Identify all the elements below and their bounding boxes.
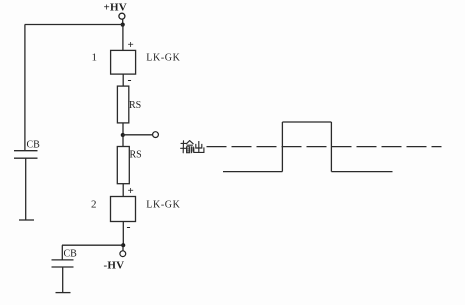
wire bottom horizontal [62, 244, 123, 246]
wire top horizontal [25, 24, 123, 26]
node middle junction dot [121, 133, 125, 137]
terminal +HV circle [119, 13, 125, 19]
waveform baseline left [223, 171, 282, 173]
svg-text:+: + [128, 39, 134, 51]
waveform baseline right [331, 171, 392, 173]
capacitor CB bottom (plates) [52, 260, 74, 267]
wire middle junction to resistor R2 [122, 135, 124, 147]
resistor RS (lower) [117, 147, 129, 184]
svg-text:+HV: +HV [104, 2, 127, 14]
wire main vertical (junction to tube 1) [122, 25, 124, 51]
svg-text:-: - [128, 73, 132, 87]
svg-text:RS: RS [129, 100, 141, 111]
terminal -HV circle [120, 251, 126, 257]
svg-text:2: 2 [91, 199, 97, 211]
svg-text:LK-GK: LK-GK [146, 53, 180, 64]
terminator bar (bottom branch end) [56, 292, 71, 294]
wire tube2 to bottom junction [122, 222, 124, 246]
svg-text:CB: CB [64, 249, 78, 260]
wire stub to -HV terminal [122, 245, 124, 251]
wire R2 to tube 2 [122, 184, 124, 197]
wire below bottom capacitor [62, 267, 64, 292]
resistor RS (upper) [117, 86, 128, 123]
terminal output circle [153, 132, 159, 138]
label 输 (output char 1, drawn strokes) [181, 141, 194, 153]
thyratron U2 box [111, 197, 136, 222]
label 出 (output char 2, drawn strokes) [194, 142, 204, 153]
svg-text:-: - [127, 220, 131, 234]
waveform rising edge [281, 122, 283, 172]
node bottom junction dot [121, 243, 125, 247]
wire R1 to middle junction [122, 123, 124, 135]
svg-text:LK-GK: LK-GK [146, 200, 180, 211]
wire tube1 to resistor R1 [122, 74, 124, 86]
wire from +HV terminal down to top junction [122, 19, 124, 24]
wire left vertical (top junction to left capacitor) [24, 25, 26, 151]
terminator bar (left branch end) [19, 219, 34, 221]
thyratron U1 box [111, 50, 136, 74]
wire below left capacitor [25, 158, 27, 219]
svg-text:+: + [128, 185, 134, 197]
capacitor CB left (plates) [14, 151, 38, 159]
svg-text:RS: RS [130, 150, 142, 161]
reference dashed line (zero level) [207, 146, 442, 148]
node top junction dot [121, 23, 125, 27]
waveform pulse top [282, 121, 331, 123]
wire middle output stub [123, 134, 153, 136]
wire down to bottom capacitor [61, 245, 63, 259]
svg-text:-HV: -HV [104, 260, 125, 272]
svg-text:CB: CB [27, 140, 41, 151]
svg-text:1: 1 [92, 52, 98, 64]
waveform falling edge [330, 122, 332, 172]
